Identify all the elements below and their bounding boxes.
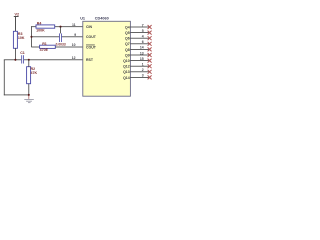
svg-text:0.0033: 0.0033 — [56, 43, 66, 47]
node ground — [28, 94, 30, 96]
svg-text:12: 12 — [72, 56, 76, 60]
svg-text:Q7: Q7 — [125, 42, 130, 46]
svg-text:R4: R4 — [37, 21, 42, 25]
svg-text:7: 7 — [142, 23, 144, 27]
svg-text:COUT: COUT — [86, 35, 97, 39]
pin Q7 n6 — [130, 42, 149, 45]
svg-text:R1: R1 — [42, 42, 47, 46]
stub down to C2 — [59, 27, 62, 34]
power V2 — [14, 12, 19, 17]
svg-text:U1: U1 — [80, 17, 85, 21]
wire pin9 COUT — [32, 35, 60, 38]
pin Q4 n7 — [130, 26, 149, 29]
svg-text:3: 3 — [142, 74, 144, 78]
svg-text:4: 4 — [142, 35, 144, 39]
svg-text:5: 5 — [142, 29, 144, 33]
wire V2 to R3 — [14, 17, 17, 32]
svg-text:13: 13 — [140, 51, 144, 55]
wire R2 top — [27, 60, 30, 67]
right pin stubs with numbers and terminal X — [130, 23, 151, 79]
node branch — [30, 36, 32, 38]
svg-text:Q8: Q8 — [125, 48, 130, 52]
svg-text:10K: 10K — [18, 36, 25, 40]
capacitor C2 — [56, 33, 66, 46]
svg-text:COUT: COUT — [86, 45, 97, 49]
pin Q12 n1 — [130, 65, 149, 68]
IC U1 CD4060 — [80, 17, 130, 97]
pin Q6 n4 — [130, 37, 149, 40]
svg-text:1: 1 — [142, 63, 144, 67]
IC right pin labels — [123, 25, 130, 79]
svg-text:14: 14 — [140, 46, 144, 50]
wire R2 bottom — [27, 84, 30, 95]
wire R3 to rail — [14, 48, 17, 60]
svg-text:CD4060: CD4060 — [95, 17, 109, 21]
svg-text:Q12: Q12 — [123, 65, 130, 69]
svg-text:Q5: Q5 — [125, 31, 130, 35]
wire left loop — [3, 60, 6, 96]
pin Q13 n2 — [130, 70, 149, 73]
svg-text:15: 15 — [140, 57, 144, 61]
pin Q10 n15 — [130, 59, 149, 62]
pin Q14 n3 — [130, 76, 149, 79]
svg-text:Q13: Q13 — [123, 70, 130, 74]
svg-text:100K: 100K — [36, 28, 45, 32]
resistor R3 — [13, 31, 24, 48]
wire pin11 CIN — [31, 25, 36, 28]
svg-text:11: 11 — [72, 23, 76, 27]
svg-text:Q4: Q4 — [125, 25, 130, 29]
resistor R4 — [36, 21, 55, 32]
rail wire to RST pin 12 — [4, 58, 21, 61]
resistor R1 470E — [40, 42, 56, 52]
svg-text:47K: 47K — [31, 71, 38, 75]
svg-text:RST: RST — [86, 58, 94, 62]
node R3-rail — [14, 59, 16, 61]
svg-text:470E: 470E — [40, 48, 49, 52]
ground — [24, 96, 34, 103]
pin Q9 n13 — [130, 54, 149, 57]
resistor R2 — [27, 67, 38, 84]
svg-text:10: 10 — [72, 43, 76, 47]
pin Q5 n5 — [130, 31, 149, 34]
svg-text:Q14: Q14 — [123, 76, 130, 80]
svg-text:V2: V2 — [15, 12, 20, 16]
node R2-rail — [28, 59, 30, 61]
background — [0, 0, 160, 110]
svg-text:2: 2 — [142, 68, 144, 72]
svg-text:9: 9 — [74, 33, 76, 37]
svg-text:Q9: Q9 — [125, 53, 130, 57]
wire pin10 — [32, 46, 40, 49]
svg-text:6: 6 — [142, 40, 144, 44]
node R4 junction — [59, 26, 61, 28]
pin Q8 n14 — [130, 48, 149, 51]
capacitor C1 — [20, 51, 25, 63]
svg-text:Q6: Q6 — [125, 37, 130, 41]
svg-text:CIN: CIN — [86, 25, 93, 29]
svg-text:Q10: Q10 — [123, 59, 130, 63]
vertical branch — [30, 26, 33, 47]
svg-text:C1: C1 — [20, 51, 25, 55]
